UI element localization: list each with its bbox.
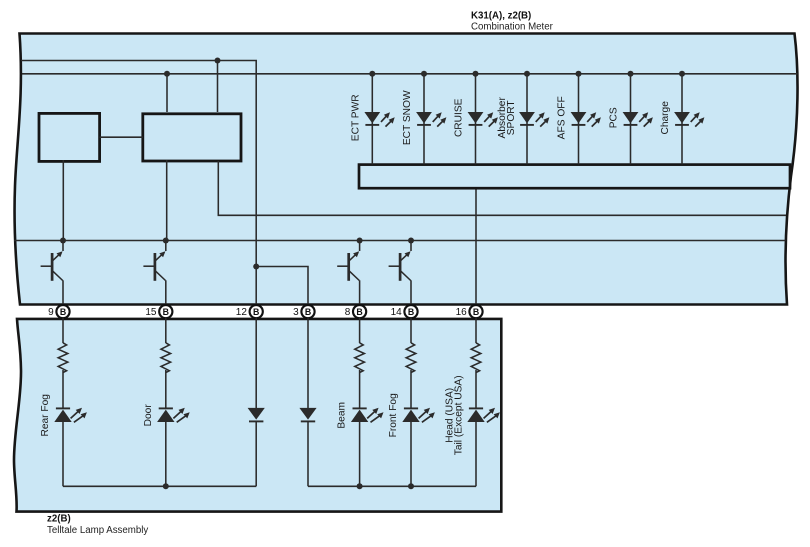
wire lamp L7 to ground bus: [475, 422, 477, 486]
node junction bus Q2: [163, 238, 169, 244]
pin 8(B) connector: [353, 305, 366, 318]
LED D1: [364, 112, 380, 123]
LED lamp L2: [159, 407, 173, 409]
telltale lamp assembly block outline: [14, 319, 501, 512]
svg-text:K31(A), z2(B): K31(A), z2(B): [471, 11, 531, 22]
wire diode to ground bus: [255, 421, 257, 486]
svg-text:B: B: [305, 307, 311, 317]
svg-text:B: B: [356, 307, 362, 317]
resistor R2: [161, 343, 171, 373]
wire lamp L5 to ground bus: [359, 422, 361, 486]
wire U2 output to right: [218, 161, 786, 215]
pin 3(B) connector: [301, 305, 314, 318]
LED lamp L7: [469, 407, 483, 409]
wire resistor R5 to lamp: [359, 370, 361, 408]
box U2 meter IC: [143, 114, 241, 161]
wire top supply to pin 12: [21, 61, 256, 306]
wire U2 output down: [166, 160, 168, 241]
wire pin to resistor R6: [410, 318, 412, 343]
box U1 driver: [39, 113, 100, 161]
svg-text:Door: Door: [143, 404, 154, 427]
wire between U1 and U2: [100, 136, 143, 138]
pin 12(B) connector: [250, 305, 263, 318]
node junction bus Q3: [357, 238, 363, 244]
svg-text:15: 15: [145, 307, 157, 318]
wire LED D4 column: [526, 74, 528, 165]
node junction LED D2: [421, 71, 427, 77]
wire resistor R1 to lamp: [62, 370, 64, 408]
LED D5: [571, 112, 587, 123]
wire resistor R2 to lamp: [165, 370, 167, 408]
wire pin to diode column 3: [255, 318, 257, 408]
resistor R6: [406, 343, 416, 373]
resistor R1: [58, 343, 68, 373]
transistor Q3: [359, 241, 361, 252]
svg-text:Charge: Charge: [660, 101, 671, 135]
svg-text:Rear Fog: Rear Fog: [40, 394, 51, 437]
svg-text:B: B: [253, 307, 259, 317]
wire branch bus to IC box: [166, 74, 168, 112]
LED D2: [416, 112, 432, 123]
LED D3: [468, 112, 484, 123]
node junction LED D3: [473, 71, 479, 77]
svg-text:3: 3: [293, 307, 299, 318]
svg-text:Tail (Except USA): Tail (Except USA): [454, 375, 465, 455]
svg-text:B: B: [163, 307, 169, 317]
combination meter block outline: [15, 34, 798, 305]
resistor R5: [355, 343, 365, 373]
wire lamp L2 to ground bus: [165, 422, 167, 486]
LED lamp L1: [56, 407, 70, 409]
svg-text:PCS: PCS: [609, 107, 620, 128]
svg-text:z2(B): z2(B): [47, 514, 71, 525]
svg-text:AFS OFF: AFS OFF: [557, 96, 568, 139]
node junction ground right 2: [408, 483, 414, 489]
node junction bus Q1: [60, 238, 66, 244]
wire pin to resistor R7: [475, 318, 477, 343]
wire diode to ground bus: [307, 421, 309, 486]
wire LED supply bus: [22, 73, 798, 75]
svg-text:SPORT: SPORT: [506, 100, 517, 135]
wire pin to diode column 4: [307, 318, 309, 408]
pin 9(B) connector: [56, 305, 69, 318]
pin 15(B) connector: [159, 305, 172, 318]
diode D10: [248, 408, 265, 420]
wire LED D3 column: [475, 74, 477, 165]
LED D6: [623, 112, 639, 123]
svg-text:8: 8: [345, 307, 351, 318]
svg-text:CRUISE: CRUISE: [454, 98, 465, 137]
wire LED D1 column: [371, 74, 373, 165]
wire pin to resistor R2: [165, 318, 167, 343]
wire branch to IC box: [217, 61, 219, 113]
node junction on LED bus: [164, 71, 170, 77]
wire LED D2 column: [423, 74, 425, 165]
wire LED box to pin 16: [475, 189, 477, 306]
LED D7: [674, 112, 690, 123]
node junction LED D1: [369, 71, 375, 77]
svg-text:Combination Meter: Combination Meter: [471, 22, 554, 33]
wire ground bus left: [63, 485, 256, 487]
wire U1 output down: [62, 160, 64, 241]
svg-text:14: 14: [391, 307, 403, 318]
wire resistor R6 to lamp: [410, 370, 412, 408]
node junction ground left: [163, 483, 169, 489]
svg-text:Telltale Lamp Assembly: Telltale Lamp Assembly: [47, 525, 148, 536]
svg-text:9: 9: [48, 307, 54, 318]
LED lamp L6: [404, 407, 418, 409]
node junction ground right 1: [357, 483, 363, 489]
svg-text:16: 16: [456, 307, 468, 318]
resistor R7: [471, 343, 481, 373]
svg-text:B: B: [473, 307, 479, 317]
node junction bus Q4: [408, 238, 414, 244]
LED lamp L5: [353, 407, 367, 409]
wire resistor R7 to lamp: [475, 370, 477, 408]
wire LED D5 column: [578, 74, 580, 165]
svg-text:ECT SNOW: ECT SNOW: [402, 90, 413, 145]
svg-text:ECT PWR: ECT PWR: [350, 94, 361, 141]
svg-text:B: B: [60, 307, 66, 317]
svg-text:Beam: Beam: [337, 402, 348, 429]
transistor Q2: [165, 241, 167, 252]
wire LED D7 column: [681, 74, 683, 165]
wire ground bus right: [308, 485, 476, 487]
node junction LED D7: [679, 71, 685, 77]
wire collector bus: [14, 240, 786, 242]
wire pin to resistor R1: [62, 318, 64, 343]
svg-text:B: B: [408, 307, 414, 317]
node junction on top supply: [215, 58, 221, 64]
node junction LED D6: [628, 71, 634, 77]
box LED common bus bar: [359, 165, 790, 189]
LED D4: [519, 112, 535, 123]
node junction LED D5: [576, 71, 582, 77]
wire LED D6 column: [630, 74, 632, 165]
node junction LED D4: [524, 71, 530, 77]
transistor Q1: [62, 241, 64, 252]
wire lamp L1 to ground bus: [62, 422, 64, 486]
svg-text:Front Fog: Front Fog: [388, 393, 399, 437]
wire to pin 3: [256, 267, 308, 306]
wire lamp L6 to ground bus: [410, 422, 412, 486]
wire pin 12 branch junction: [253, 264, 259, 270]
diode D11: [299, 408, 316, 420]
svg-text:12: 12: [236, 307, 248, 318]
pin 14(B) connector: [404, 305, 417, 318]
transistor Q4: [410, 241, 412, 252]
wire pin to resistor R5: [359, 318, 361, 343]
pin 16(B) connector: [469, 305, 482, 318]
